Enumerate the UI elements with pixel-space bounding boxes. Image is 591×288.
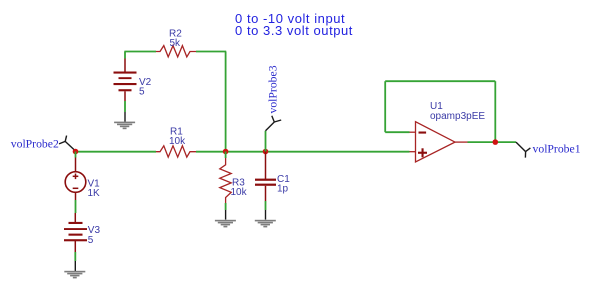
wire R2 top right horizontal xyxy=(196,51,226,53)
battery V2 xyxy=(114,59,152,102)
op-amp U1 xyxy=(410,101,486,162)
svg-text:0 to 3.3 volt output: 0 to 3.3 volt output xyxy=(235,23,353,38)
svg-text:volProbe2: volProbe2 xyxy=(11,138,59,151)
wire V1 top stub xyxy=(75,152,77,158)
wire probe3 stub xyxy=(265,131,267,152)
wire C1 to ground xyxy=(265,201,267,210)
node dot left (V1/probe2) xyxy=(73,149,79,155)
svg-text:5: 5 xyxy=(139,87,145,98)
main wire left segment xyxy=(76,151,157,153)
ground under C1 xyxy=(255,220,276,228)
svg-text:5k: 5k xyxy=(170,38,182,49)
pin minus xyxy=(410,131,416,133)
source V1 xyxy=(65,158,100,201)
probe volProbe3 xyxy=(266,116,282,131)
ground under V3 xyxy=(64,271,85,279)
node dot R2/R3 xyxy=(223,149,229,155)
resistor R2 xyxy=(156,46,196,57)
svg-text:10k: 10k xyxy=(169,136,186,147)
wire feedback left vertical xyxy=(384,81,386,132)
wire R3 to ground xyxy=(225,203,227,210)
wire feedback top horizontal xyxy=(385,80,495,82)
ground under R3 xyxy=(215,220,236,228)
wire V2 to ground xyxy=(124,101,126,112)
resistor R1 xyxy=(156,146,196,157)
svg-text:volProbe1: volProbe1 xyxy=(533,143,581,156)
wire feedback right vertical xyxy=(494,81,496,142)
wire R2 loop left vertical xyxy=(124,52,126,59)
triangle xyxy=(416,122,456,162)
capacitor C1 xyxy=(255,152,290,202)
svg-text:1K: 1K xyxy=(88,188,101,199)
wire R3 top stub xyxy=(225,152,227,159)
node dot C1/probe3 xyxy=(263,149,269,155)
battery V3 xyxy=(64,213,100,252)
wire V1 to V3 xyxy=(75,200,77,213)
resistor R3 xyxy=(220,158,231,203)
plus mark xyxy=(418,152,427,154)
probe volProbe1 xyxy=(516,142,530,158)
svg-text:1p: 1p xyxy=(277,184,289,195)
pin output xyxy=(455,141,468,143)
ground under V2 xyxy=(114,122,135,130)
svg-text:opamp3pEE: opamp3pEE xyxy=(430,111,485,122)
wire feedback minus input xyxy=(385,131,409,133)
wire V3 to ground xyxy=(74,252,76,261)
svg-text:10k: 10k xyxy=(231,187,248,198)
minus mark xyxy=(419,132,427,134)
wire R2 right vertical down to main node xyxy=(225,52,227,152)
wire output xyxy=(468,141,517,143)
pin plus xyxy=(410,151,416,153)
node dot output xyxy=(493,139,499,145)
wire R2 top left horizontal xyxy=(124,51,156,53)
probe volProbe2 xyxy=(59,136,76,151)
main wire middle segment xyxy=(196,151,410,153)
svg-text:volProbe3: volProbe3 xyxy=(267,65,280,113)
svg-text:5: 5 xyxy=(88,235,94,246)
